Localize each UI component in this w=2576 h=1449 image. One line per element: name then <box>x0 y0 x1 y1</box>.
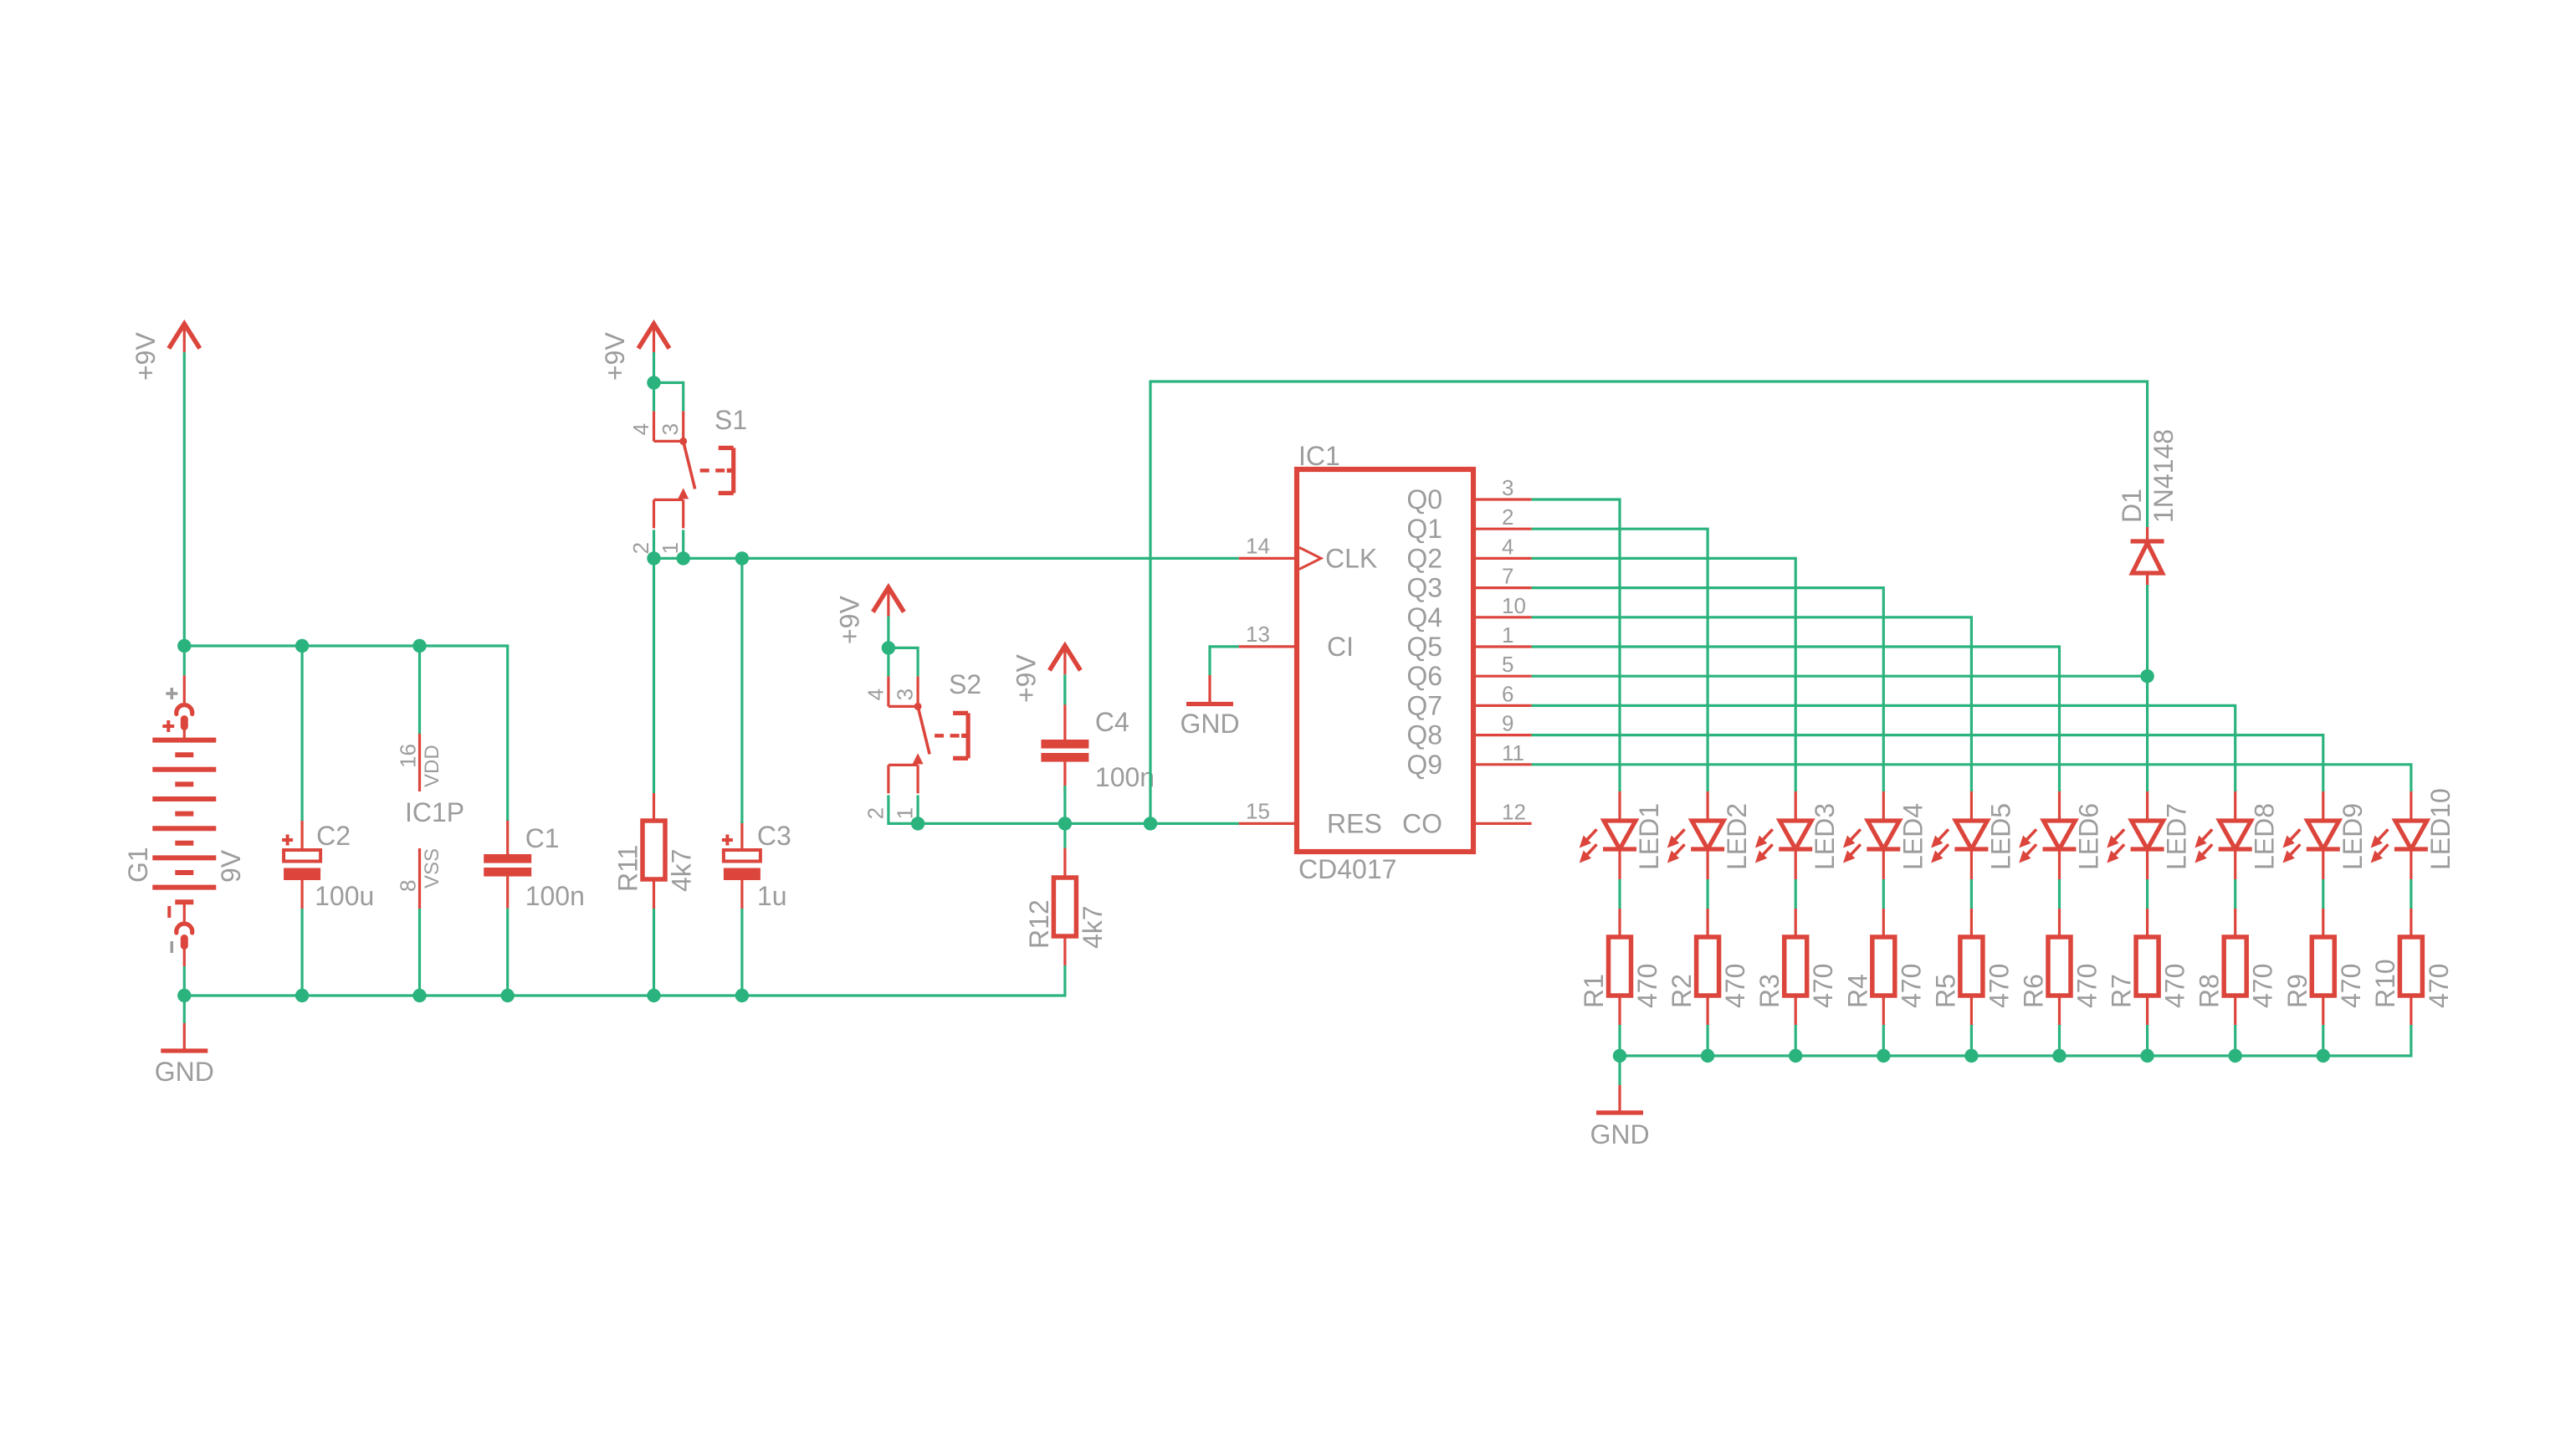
capacitor C1 100n <box>484 819 531 909</box>
svg-text:R9: R9 <box>2282 974 2312 1008</box>
label R3 <box>1754 974 1785 1008</box>
ic U1 CD4017 body <box>1239 469 1532 852</box>
label R1 <box>1579 974 1609 1008</box>
label 2 (S2 pin 2) <box>863 807 888 819</box>
svg-text:Q1: Q1 <box>1406 514 1442 544</box>
wire net S2 pin4 stub <box>887 648 889 676</box>
wire net S1 pin1 drop <box>682 530 684 558</box>
svg-text:S1: S1 <box>714 405 747 435</box>
pushbutton S2 <box>889 676 968 793</box>
label S2 <box>949 669 981 699</box>
svg-text:11: 11 <box>1502 740 1524 765</box>
pin name Q4 <box>1406 602 1442 632</box>
label IC1P <box>405 797 464 827</box>
label LED9 <box>2338 803 2368 870</box>
svg-text:VSS: VSS <box>421 848 443 888</box>
svg-text:1u: 1u <box>757 881 787 911</box>
power symbol +9V (C4 branch) <box>1011 646 1080 703</box>
svg-text:R3: R3 <box>1754 974 1785 1008</box>
svg-text:7: 7 <box>1502 564 1513 589</box>
svg-text:Q8: Q8 <box>1406 720 1442 750</box>
label R5 <box>1930 974 1960 1008</box>
resistor R2 470 <box>1697 909 1719 1025</box>
svg-text:2: 2 <box>1502 504 1513 530</box>
resistor R4 470 <box>1872 909 1895 1025</box>
wire +9V arrow to S1 <box>653 352 655 382</box>
resistor R1 470 <box>1609 909 1631 1025</box>
resistor R6 470 <box>2048 909 2071 1025</box>
label 4 (S1 pin 4) <box>628 423 653 435</box>
pin number 16 (VDD) <box>396 744 421 768</box>
power symbol +9V (S2 branch) <box>834 587 904 644</box>
pin number 14 (CLK) <box>1246 533 1270 558</box>
wire +9V arrow to S2 <box>887 617 889 648</box>
label R7 <box>2107 974 2137 1008</box>
svg-text:R11: R11 <box>613 845 643 892</box>
svg-text:4k7: 4k7 <box>1078 905 1108 949</box>
wire net LED1 cathode to R1 <box>1618 879 1621 909</box>
pin name Q9 <box>1406 750 1442 780</box>
pin number 5 (Q6) <box>1502 652 1513 677</box>
capacitor C2 100u <box>282 821 320 909</box>
svg-text:LED8: LED8 <box>2250 803 2280 870</box>
svg-text:+9V: +9V <box>600 332 630 381</box>
svg-text:GND: GND <box>1590 1119 1649 1149</box>
wire net GND C2 drop <box>301 909 304 996</box>
svg-text:5: 5 <box>1502 652 1513 677</box>
pin number 3 (Q0) <box>1502 475 1513 500</box>
pin name Q1 <box>1406 514 1442 544</box>
pin name VSS <box>421 848 443 888</box>
pin name Q6 <box>1406 661 1442 691</box>
wire net LED9 cathode to R9 <box>2322 879 2324 909</box>
label R2 <box>1667 974 1697 1008</box>
wire +9V arrow to C4 <box>1063 674 1066 705</box>
pin number 8 (VSS) <box>396 880 421 892</box>
wire net Q8 to LED9 <box>1532 735 2323 791</box>
label LED3 <box>1810 803 1840 870</box>
wire net GND C3 drop <box>740 909 743 996</box>
svg-text:2: 2 <box>863 807 888 819</box>
svg-text:4: 4 <box>863 689 888 700</box>
svg-text:470: 470 <box>1808 964 1838 1008</box>
label 470 (R10) <box>2424 964 2454 1008</box>
wire net LED8 cathode to R8 <box>2234 879 2236 909</box>
wire net C4 bottom <box>1063 786 1066 823</box>
label C4 <box>1095 707 1129 737</box>
wire net S2 bottom to RES <box>889 795 1239 823</box>
label 470 (R5) <box>1984 964 2014 1008</box>
wire net +9V C2 drop <box>301 646 304 821</box>
svg-text:R2: R2 <box>1667 974 1697 1008</box>
svg-text:+9V: +9V <box>131 332 161 381</box>
pin name RES <box>1327 808 1382 838</box>
svg-text:2: 2 <box>628 542 653 554</box>
wire net Q6 to LED7 <box>1532 676 2148 791</box>
svg-text:4: 4 <box>1502 534 1513 559</box>
wire net LED7 cathode to R7 <box>2146 879 2148 909</box>
label LED8 <box>2250 803 2280 870</box>
svg-text:8: 8 <box>396 880 421 892</box>
label R11 <box>613 845 643 892</box>
svg-text:13: 13 <box>1246 622 1270 647</box>
label R4 <box>1842 974 1872 1008</box>
svg-text:6: 6 <box>1502 681 1513 706</box>
pin number 7 (Q3) <box>1502 564 1513 589</box>
LED LED8 <box>2196 791 2252 879</box>
label 2 (S1 pin 2) <box>628 542 653 554</box>
LED LED3 <box>1757 791 1813 879</box>
pin name CO <box>1402 808 1442 838</box>
svg-text:10: 10 <box>1502 593 1526 618</box>
wire net R8 bottom drop <box>2234 1025 2236 1056</box>
svg-text:CLK: CLK <box>1325 543 1377 573</box>
resistor R12 4k7 <box>1053 848 1076 965</box>
svg-text:470: 470 <box>1720 964 1750 1008</box>
svg-text:G1: G1 <box>123 847 153 883</box>
label 4k7 (R12) <box>1078 905 1108 949</box>
wire net R2 bottom drop <box>1706 1025 1708 1056</box>
label 470 (R4) <box>1896 964 1926 1008</box>
label LED2 <box>1722 803 1752 870</box>
wire net R5 bottom drop <box>1970 1025 1973 1056</box>
label 100n (C4) <box>1095 762 1155 792</box>
svg-text:R5: R5 <box>1930 974 1960 1008</box>
svg-text:R4: R4 <box>1842 974 1872 1008</box>
svg-text:470: 470 <box>2424 964 2454 1008</box>
label 470 (R9) <box>2336 964 2366 1008</box>
ground GND (LED rail) <box>1590 1085 1649 1149</box>
wire net LED10 cathode to R10 <box>2410 879 2412 909</box>
wire net LED2 cathode to R2 <box>1706 879 1708 909</box>
svg-text:CD4017: CD4017 <box>1298 854 1396 884</box>
resistor R10 470 <box>2399 909 2422 1025</box>
pin number 13 (CI) <box>1246 622 1270 647</box>
label 4k7 (R11) <box>667 848 697 892</box>
label 470 (R1) <box>1632 964 1662 1008</box>
wire net CI to GND <box>1210 647 1239 675</box>
pin number 9 (Q8) <box>1502 711 1513 736</box>
wire net GND C1 drop <box>506 909 509 996</box>
label LED6 <box>2074 803 2104 870</box>
svg-text:C3: C3 <box>757 821 791 851</box>
svg-text:1: 1 <box>1502 622 1513 648</box>
svg-text:9: 9 <box>1502 711 1513 736</box>
LED LED7 <box>2108 791 2164 879</box>
svg-text:R1: R1 <box>1579 974 1609 1008</box>
svg-text:RES: RES <box>1327 808 1382 838</box>
label C1 <box>525 823 560 853</box>
label LED7 <box>2162 803 2192 870</box>
wire net Q2 to LED3 <box>1532 558 1796 791</box>
label G1 <box>123 847 153 883</box>
svg-text:100u: 100u <box>315 881 374 911</box>
wire net Q4 to LED5 <box>1532 617 1972 791</box>
svg-text:CO: CO <box>1402 808 1442 838</box>
wire net CLK top link <box>1150 381 2148 823</box>
pin number 12 (CO) <box>1502 799 1526 824</box>
svg-text:470: 470 <box>1984 964 2014 1008</box>
resistor R8 470 <box>2224 909 2246 1025</box>
wire net GND bottom rail <box>184 965 1065 996</box>
pin number 4 (Q2) <box>1502 534 1513 559</box>
resistor R9 470 <box>2312 909 2334 1025</box>
pin name VDD <box>421 745 443 787</box>
wire net +9V IC1P VDD drop <box>418 646 421 734</box>
wire net R1 bottom drop <box>1618 1025 1621 1056</box>
pin name Q0 <box>1406 484 1442 515</box>
label 3 (S2 pin 3) <box>893 689 918 700</box>
wire net GND battery stub <box>183 996 186 1023</box>
wire net LED6 cathode to R6 <box>2058 879 2061 909</box>
svg-text:C1: C1 <box>525 823 560 853</box>
wire net LED3 cathode to R3 <box>1795 879 1797 909</box>
wire net S1 top split <box>654 382 684 411</box>
label C2 <box>316 821 351 851</box>
wire net GND LED rail <box>1620 1025 2411 1085</box>
svg-text:16: 16 <box>396 744 421 768</box>
svg-text:Q9: Q9 <box>1406 750 1442 780</box>
label R8 <box>2194 974 2225 1008</box>
ground GND (battery) <box>155 1023 214 1087</box>
svg-text:1: 1 <box>893 807 918 819</box>
label 470 (R2) <box>1720 964 1750 1008</box>
capacitor C3 1u <box>722 821 761 909</box>
resistor R5 470 <box>1960 909 1983 1025</box>
label 470 (R7) <box>2160 964 2190 1008</box>
capacitor C4 100n <box>1041 704 1088 794</box>
wire net Q5 to LED6 <box>1532 647 2060 791</box>
wire net R4 bottom drop <box>1882 1025 1885 1056</box>
label 470 (R3) <box>1808 964 1838 1008</box>
svg-text:R12: R12 <box>1024 899 1054 949</box>
svg-text:GND: GND <box>155 1057 214 1087</box>
wire net Q3 to LED4 <box>1532 588 1884 791</box>
svg-text:LED3: LED3 <box>1810 803 1840 870</box>
label LED4 <box>1897 803 1928 870</box>
svg-text:IC1P: IC1P <box>405 797 464 827</box>
svg-text:Q6: Q6 <box>1406 661 1442 691</box>
label IC1 <box>1298 441 1340 471</box>
svg-text:LED10: LED10 <box>2425 788 2456 870</box>
pushbutton S1 <box>654 411 734 528</box>
svg-text:4: 4 <box>628 423 653 435</box>
svg-text:GND: GND <box>1180 709 1239 739</box>
wire +9V arrow to rail at G1 <box>183 352 186 646</box>
label 1 (S2 pin 1) <box>893 807 918 819</box>
svg-text:Q3: Q3 <box>1406 573 1442 603</box>
LED LED1 <box>1580 791 1636 879</box>
svg-text:R8: R8 <box>2194 974 2225 1008</box>
label R12 <box>1024 899 1054 949</box>
wire net R9 bottom drop <box>2322 1025 2324 1056</box>
svg-text:R6: R6 <box>2019 974 2049 1008</box>
LED LED9 <box>2284 791 2340 879</box>
ground GND (IC1 CI pin) <box>1180 675 1239 739</box>
wire net Q0 to LED1 <box>1532 499 1620 791</box>
label 1u <box>757 881 787 911</box>
svg-text:CI: CI <box>1327 632 1354 662</box>
power pins IC1P VSS pin 8 <box>418 848 421 909</box>
svg-text:LED6: LED6 <box>2074 803 2104 870</box>
battery G1 9V <box>152 675 216 966</box>
svg-text:14: 14 <box>1246 533 1270 558</box>
label R6 <box>2019 974 2049 1008</box>
wire net S2 top split <box>889 648 918 676</box>
svg-text:Q7: Q7 <box>1406 690 1442 720</box>
label LED10 <box>2425 788 2456 870</box>
svg-text:+9V: +9V <box>834 596 864 644</box>
label 470 (R6) <box>2072 964 2102 1008</box>
wire net LED5 cathode to R5 <box>1970 879 1973 909</box>
wire net D1 bottom <box>2146 585 2148 676</box>
svg-text:470: 470 <box>2072 964 2102 1008</box>
LED LED10 <box>2372 791 2428 879</box>
power symbol +9V (battery branch) <box>131 324 200 381</box>
svg-text:C4: C4 <box>1095 707 1129 737</box>
wire net C3 top <box>740 558 743 823</box>
pin name CI <box>1327 632 1354 662</box>
wire net Q7 to LED8 <box>1532 705 2235 791</box>
pin number 10 (Q4) <box>1502 593 1526 618</box>
svg-text:R7: R7 <box>2107 974 2137 1008</box>
svg-text:12: 12 <box>1502 799 1526 824</box>
svg-text:470: 470 <box>2336 964 2366 1008</box>
pin name Q3 <box>1406 573 1442 603</box>
resistor R7 470 <box>2136 909 2159 1025</box>
label 1 (S1 pin 1) <box>658 542 683 554</box>
svg-text:LED2: LED2 <box>1722 803 1752 870</box>
svg-text:VDD: VDD <box>421 745 443 787</box>
wire net Q1 to LED2 <box>1532 529 1708 791</box>
wire net +9V G1 to rail <box>183 646 186 675</box>
wire net +9V top rail <box>184 646 507 821</box>
svg-text:D1: D1 <box>2117 489 2147 523</box>
wire net GND R11 drop <box>653 909 655 996</box>
label C3 <box>757 821 791 851</box>
wire net C4 top <box>1063 675 1066 704</box>
svg-text:LED1: LED1 <box>1634 803 1664 870</box>
svg-text:470: 470 <box>1632 964 1662 1008</box>
svg-text:1: 1 <box>658 542 683 554</box>
label 100n <box>525 881 585 911</box>
pin name Q2 <box>1406 543 1442 573</box>
label D1 <box>2117 489 2147 523</box>
pin name Q7 <box>1406 690 1442 720</box>
svg-text:+9V: +9V <box>1011 654 1041 703</box>
label 4 (S2 pin 4) <box>863 689 888 700</box>
svg-text:3: 3 <box>893 689 918 700</box>
svg-text:S2: S2 <box>949 669 981 699</box>
svg-text:9V: 9V <box>216 849 246 883</box>
svg-text:LED7: LED7 <box>2162 803 2192 870</box>
wire net R6 bottom drop <box>2058 1025 2061 1056</box>
wire net R12 top <box>1063 823 1066 847</box>
svg-text:470: 470 <box>2248 964 2278 1008</box>
pin name Q8 <box>1406 720 1442 750</box>
LED LED6 <box>2020 791 2077 879</box>
svg-text:Q4: Q4 <box>1406 602 1442 632</box>
pin number 15 (RES) <box>1246 798 1270 823</box>
svg-text:1N4148: 1N4148 <box>2148 429 2179 523</box>
label LED5 <box>1985 803 2015 870</box>
LED LED5 <box>1933 791 1989 879</box>
wire net GND IC1P VSS drop <box>418 909 421 996</box>
label 470 (R8) <box>2248 964 2278 1008</box>
label LED1 <box>1634 803 1664 870</box>
wire net R3 bottom drop <box>1795 1025 1797 1056</box>
pin name CLK <box>1325 543 1377 573</box>
label 100u <box>315 881 374 911</box>
svg-text:IC1: IC1 <box>1298 441 1340 471</box>
svg-text:100n: 100n <box>1095 762 1155 792</box>
svg-text:3: 3 <box>1502 475 1513 500</box>
pin number 1 (Q5) <box>1502 622 1513 648</box>
diode D1 1N4148 <box>2131 527 2164 585</box>
label R9 <box>2282 974 2312 1008</box>
svg-text:Q5: Q5 <box>1406 632 1442 662</box>
pin number 6 (Q7) <box>1502 681 1513 706</box>
svg-text:Q0: Q0 <box>1406 484 1442 515</box>
wire net CLK row <box>654 530 1239 558</box>
svg-text:C2: C2 <box>316 821 351 851</box>
resistor R3 470 <box>1785 909 1807 1025</box>
label R10 <box>2370 959 2400 1008</box>
svg-text:3: 3 <box>658 423 683 435</box>
power pins IC1P VDD pin 16 <box>418 734 421 791</box>
svg-text:LED9: LED9 <box>2338 803 2368 870</box>
svg-text:15: 15 <box>1246 798 1270 823</box>
svg-text:LED4: LED4 <box>1897 803 1928 870</box>
label 9V <box>216 849 246 883</box>
resistor R11 4k7 <box>643 793 665 909</box>
svg-text:100n: 100n <box>525 881 585 911</box>
pin number 2 (Q1) <box>1502 504 1513 530</box>
wire net Q9 to LED10 <box>1532 765 2411 791</box>
LED LED4 <box>1845 791 1901 879</box>
svg-text:470: 470 <box>2160 964 2190 1008</box>
wire net S1 pin4 stub <box>653 382 655 411</box>
svg-text:470: 470 <box>1896 964 1926 1008</box>
pin name Q5 <box>1406 632 1442 662</box>
svg-text:LED5: LED5 <box>1985 803 2015 870</box>
LED LED2 <box>1668 791 1724 879</box>
label 1N4148 <box>2148 429 2179 523</box>
label CD4017 <box>1298 854 1396 884</box>
label S1 <box>714 405 747 435</box>
pin number 11 (Q9) <box>1502 740 1524 765</box>
power symbol +9V (S1 branch) <box>600 324 669 381</box>
svg-text:4k7: 4k7 <box>667 848 697 892</box>
wire net LED4 cathode to R4 <box>1882 879 1885 909</box>
svg-text:Q2: Q2 <box>1406 543 1442 573</box>
wire net R11 top <box>653 558 655 793</box>
wire net S2 pin1 drop <box>916 795 919 823</box>
svg-text:R10: R10 <box>2370 959 2400 1008</box>
label 3 (S1 pin 3) <box>658 423 683 435</box>
wire net R7 bottom drop <box>2146 1025 2148 1056</box>
